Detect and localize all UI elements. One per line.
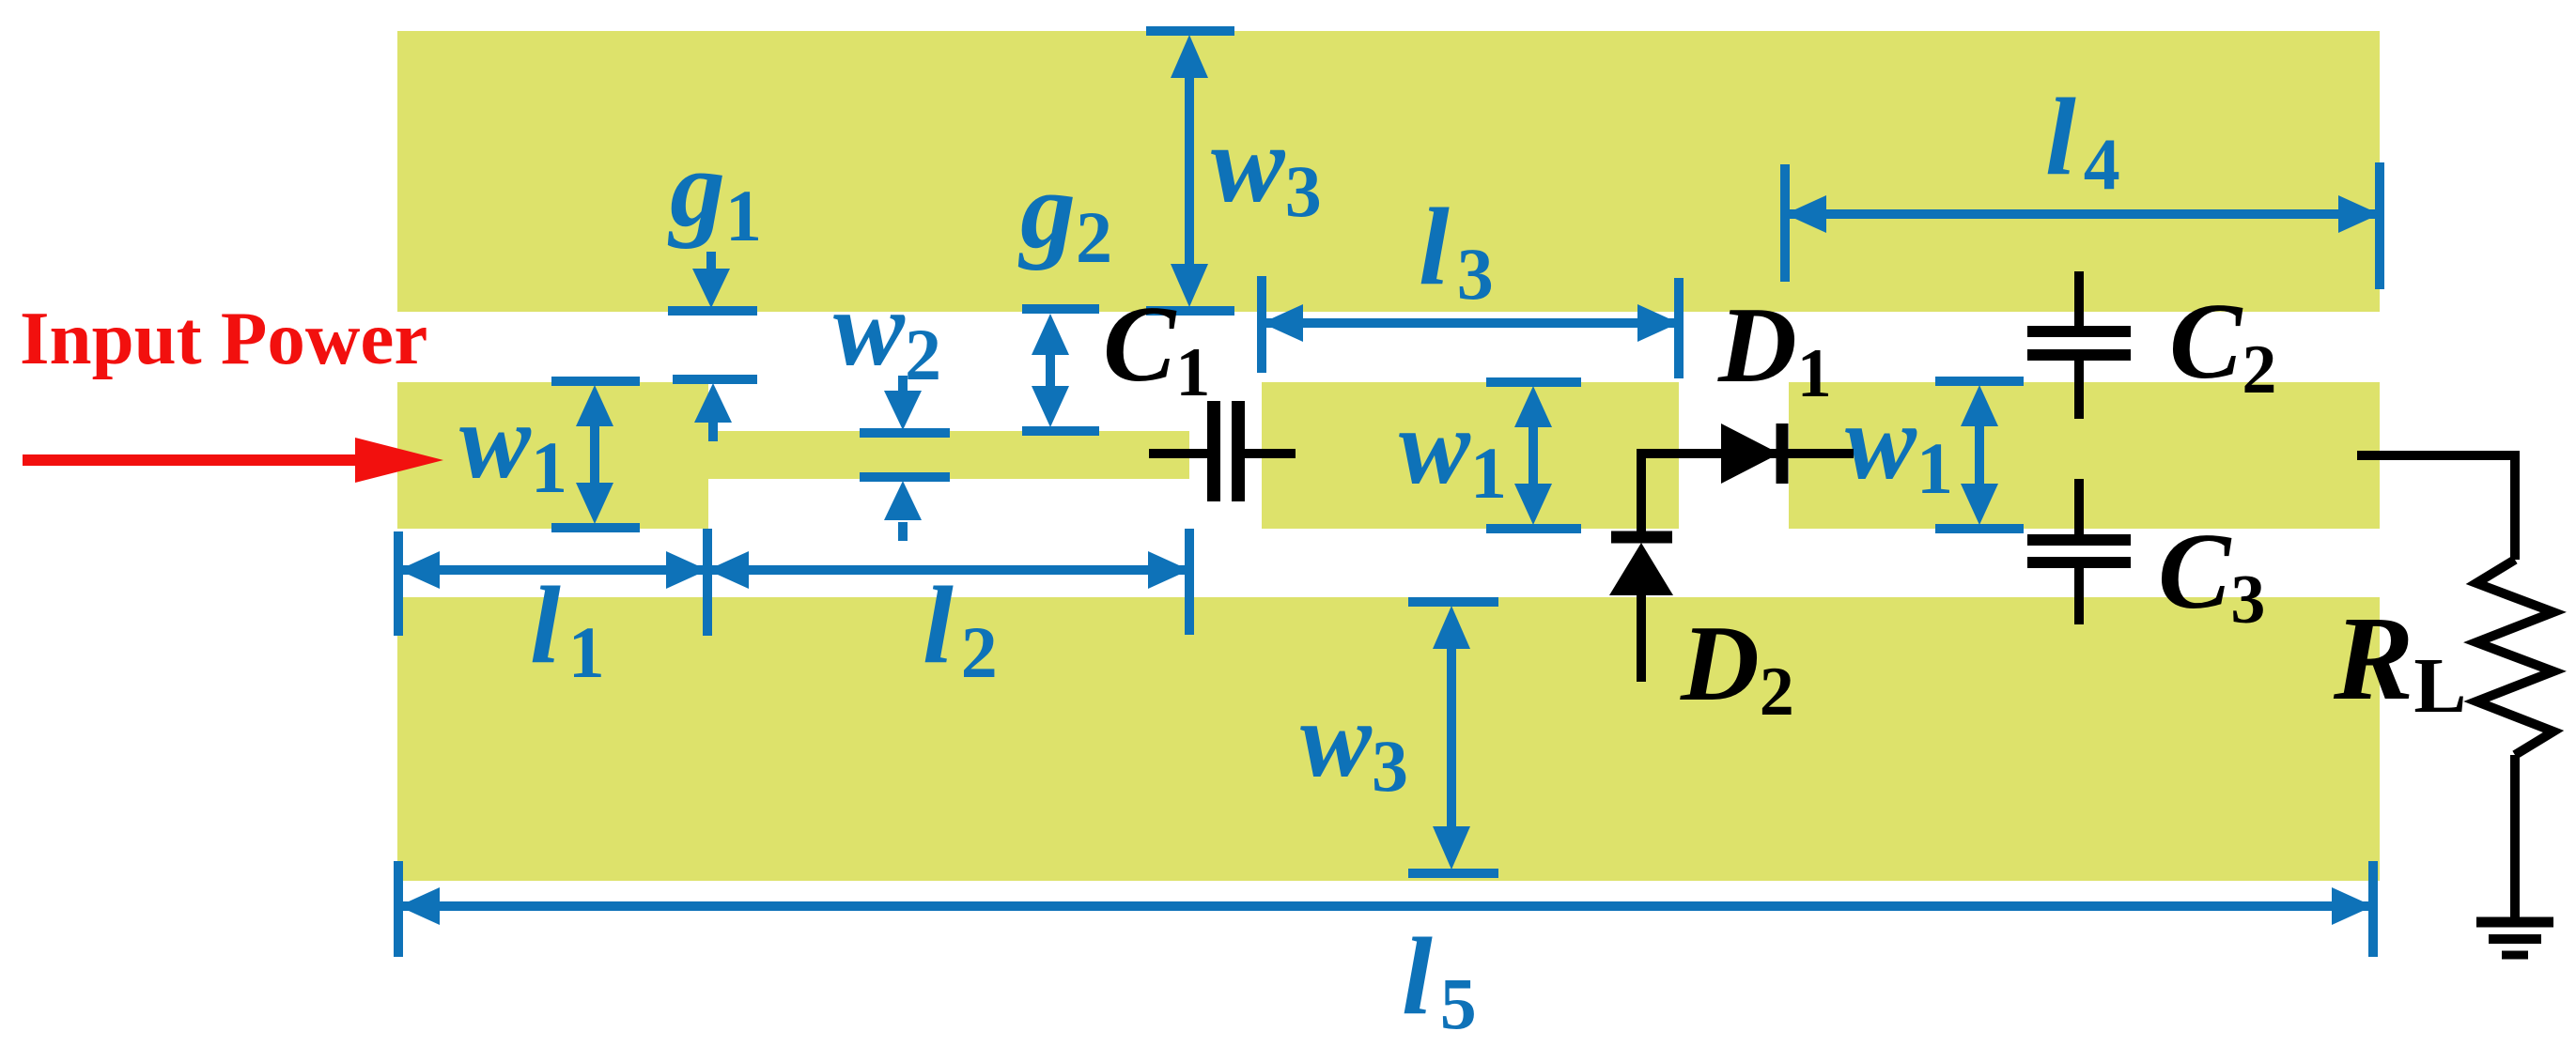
svg-text:Input Power: Input Power xyxy=(20,296,427,380)
dimension l1 xyxy=(398,529,707,636)
dimension w1 left xyxy=(551,381,640,528)
capacitor C2 xyxy=(2027,271,2131,419)
dimension g1 xyxy=(668,252,757,441)
dimension l2 xyxy=(707,529,1189,635)
input power red arrow xyxy=(23,438,443,483)
dimension l4 xyxy=(1785,162,2380,289)
dimension w3 top xyxy=(1146,31,1234,311)
dimension l5 xyxy=(398,861,2373,957)
narrow microstrip section w2/l2 xyxy=(708,431,1189,479)
dimension l3 xyxy=(1262,276,1679,378)
output microstrip section l4 xyxy=(1789,382,2380,529)
dimension w1 middle xyxy=(1486,382,1581,529)
dimension g2 xyxy=(1022,309,1099,431)
capacitor C1 xyxy=(1149,401,1296,501)
capacitor C3 xyxy=(2027,479,2131,624)
diode D1 xyxy=(1641,423,1854,484)
dimension w1 right xyxy=(1935,381,2024,529)
bottom ground plane xyxy=(397,597,2380,881)
top ground plane xyxy=(397,31,2380,312)
dimension w2 xyxy=(860,376,950,541)
input microstrip section w1/l1 xyxy=(397,382,708,529)
middle microstrip section l3 xyxy=(1262,382,1679,529)
load resistor RL wire xyxy=(2357,455,2553,922)
diode D2 xyxy=(1609,449,1673,682)
dimension w3 bottom xyxy=(1408,602,1498,873)
ground symbol xyxy=(2476,922,2553,955)
